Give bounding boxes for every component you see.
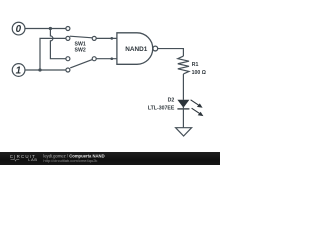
LED D2 triangle: [177, 100, 189, 108]
switch SW1 lever: [70, 36, 93, 38]
LED light arrow 2: [192, 108, 200, 114]
svg-text:LAB: LAB: [28, 158, 38, 162]
wire node0 to SW1 top throw: [25, 28, 66, 30]
switch SW1 common terminal: [92, 36, 96, 40]
wire vertical from node0 junction down to SW2 top throw, hop over row A: [50, 29, 66, 59]
NAND1 output bubble: [153, 46, 158, 51]
footer bar: [0, 152, 220, 165]
switch SW2 common terminal: [92, 57, 96, 61]
switch SW1 throw terminals: [66, 27, 70, 31]
svg-text:SW2: SW2: [75, 48, 86, 54]
wire SW1 common to NAND input A: [96, 37, 117, 39]
pin dot NAND input B: [110, 57, 113, 60]
resistor R1 zigzag: [178, 56, 189, 74]
wire SW2 common to NAND input B: [96, 58, 117, 60]
node 0: [12, 22, 25, 35]
svg-text:100 Ω: 100 Ω: [192, 70, 206, 76]
svg-text:1: 1: [16, 65, 21, 76]
node 1: [12, 64, 25, 77]
wire LED to ground: [182, 107, 184, 128]
wire vertical from node1 junction up to SW1 bottom throw: [40, 38, 66, 70]
svg-text:NAND1: NAND1: [125, 46, 147, 53]
svg-text:LTL-307EE: LTL-307EE: [148, 105, 175, 111]
ground symbol: [176, 128, 192, 136]
wire resistor to LED D2: [182, 74, 184, 100]
LED D2 cathode bar: [177, 108, 189, 110]
NAND gate NAND1 body: [117, 33, 158, 65]
wire NAND output to resistor R1: [158, 49, 184, 57]
pin dot NAND input A: [110, 37, 113, 40]
switch SW2 throw terminals: [66, 57, 70, 61]
svg-text:http://circuitlab.com/cme4qu2k: http://circuitlab.com/cme4qu2k: [43, 158, 97, 163]
LED light arrow 1: [191, 100, 204, 116]
switch SW2 lever: [70, 60, 92, 68]
svg-text:0: 0: [16, 24, 22, 35]
junction dot on node0 wire: [49, 27, 52, 30]
wire node1 to SW2 bottom throw: [25, 69, 66, 71]
svg-text:D2: D2: [168, 97, 175, 103]
svg-text:R1: R1: [192, 62, 199, 68]
junction dot on node1 wire: [38, 68, 41, 71]
